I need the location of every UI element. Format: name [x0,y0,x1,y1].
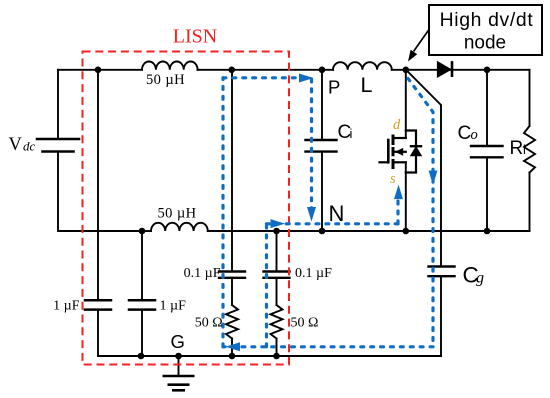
source Vdc plates [37,138,79,141]
capacitor Ci top lead [321,70,323,140]
capacitor Ci bottom lead [321,152,323,231]
node G junction [175,353,182,360]
wire N rail stub before inductor [142,230,151,232]
node: top rail / C1 [95,67,102,74]
Q1 gate lead [380,161,389,163]
wire high dv/dt node diagonal to Cg branch [406,70,441,267]
node: ground rail / 50ohm N-branch [273,353,280,360]
Q1 channel top bar [392,136,395,144]
svg-text:L: L [361,73,373,97]
capacitor 0.1uF P-branch plates [219,272,245,278]
svg-text:V: V [9,135,23,155]
MOSFET Q1 [380,70,422,231]
svg-text:0.1 µF: 0.1 µF [295,266,332,281]
capacitor C1 1uF bottom lead [97,310,99,356]
diode D1 [437,61,452,77]
node P junction [319,67,326,74]
capacitor Cg bottom lead [440,276,442,356]
Q1 source lead down to N rail [405,162,407,231]
ground symbol G [163,356,195,390]
Q1 drain lead [405,70,407,138]
arrowhead blue down (to N rail) [307,207,316,222]
Q1 body diode branch top [406,131,416,148]
resistor RL zigzag [524,126,535,173]
svg-text:C: C [458,123,472,144]
Q1 mid stub [393,151,406,153]
Q1 body diode triangle [411,147,421,155]
capacitor C1 1uF plates [85,300,111,309]
wire ground rail bottom [98,355,441,357]
svg-text:50 Ω: 50 Ω [291,316,319,331]
capacitor Co plates [471,146,503,157]
inductor 50uH top [142,62,198,70]
wire blue: up to Q1 source [396,194,399,224]
capacitor 0.1uF P-branch top lead [231,70,233,272]
svg-text:LISN: LISN [173,26,217,48]
wire Vdc top lead [57,70,59,139]
svg-text:1 µF: 1 µF [160,299,187,314]
svg-text:1 µF: 1 µF [53,299,80,314]
Q1 channel mid bar [392,149,395,155]
LISN boundary box (red dashed) [83,52,290,365]
wire blue: along N rail to source [267,222,399,225]
wire Vdc bottom lead to N return [58,152,142,232]
svg-text:i: i [350,126,353,141]
svg-text:o: o [471,127,478,143]
callout arrow [414,30,430,52]
svg-text:node: node [464,32,506,53]
Q1 drain stub [393,137,406,139]
wire top rail left (Vdc+ to LISN) [58,69,142,71]
arrowhead blue right (N rail) [271,219,286,228]
arrowhead blue down (Cg path) [429,171,438,186]
wire blue: bottom return [223,345,433,348]
node: top rail / 0.1uF P-branch [228,67,235,74]
resistor 50ohm P-branch lead and zigzag [226,278,238,356]
wire N rail (inductor to right edge) [208,230,530,232]
node: top rail / Co [484,67,491,74]
svg-text:d: d [393,117,401,133]
wire blue: up P-branch [221,78,224,347]
wire RL bottom to N rail [529,173,531,232]
inductor 50uH bottom [151,223,208,231]
Q1 gate bar [387,140,390,162]
svg-text:0.1 µF: 0.1 µF [184,266,221,281]
svg-text:s: s [390,171,396,187]
svg-text:l: l [523,142,526,157]
wire right edge down to RL [529,70,531,126]
capacitor C2 1uF top lead [141,231,143,300]
capacitor C1 1uF top lead [97,70,99,300]
node: N rail / 0.1uF N-branch [273,228,280,235]
svg-text:G: G [171,331,185,352]
svg-text:N: N [329,201,345,226]
arrowhead blue up (to source) [394,185,403,200]
capacitor Cg plates [429,267,455,277]
Q1 body diode branch bottom [406,156,416,173]
node: ground rail / C2 [138,353,145,360]
wire blue: down to N rail [310,79,313,211]
capacitor 0.1uF N-branch top lead [276,231,278,272]
svg-text:High dv/dt: High dv/dt [440,9,534,31]
wire top rail right (node to diode to Co and RL) [392,69,530,71]
svg-text:50 µH: 50 µH [158,206,197,222]
svg-text:P: P [328,77,340,98]
Q1 body arrow [395,148,403,156]
wire top rail middle (to node P) [198,69,333,71]
svg-text:50 µH: 50 µH [146,72,185,88]
capacitor Ci plates [306,140,337,152]
resistor 50ohm N-branch lead and zigzag [271,278,283,356]
arrowhead blue left (bottom return) [226,342,241,351]
node: high dv/dt node [403,67,410,74]
D1 cathode bar [451,61,454,77]
callout box: High dv/dt node [408,5,542,62]
capacitor C2 1uF plates [129,300,155,309]
svg-text:g: g [476,269,484,286]
node: N rail / Co [484,228,491,235]
Q1 body diode cathode bar [411,145,421,147]
wire blue: node diagonal down through Cg [408,79,433,348]
capacitor C2 1uF bottom lead [141,310,143,356]
capacitor Co top lead [486,70,488,146]
node: N rail / Ci [319,228,326,235]
node: N rail / C2 [139,228,146,235]
capacitor 0.1uF N-branch plates [264,272,290,278]
inductor L [333,62,392,70]
Q1 channel bottom bar [392,161,395,168]
svg-text:dc: dc [23,139,36,154]
arrowhead blue right (P rail) [299,74,314,83]
blue EMI current path [223,78,433,347]
node: ground rail / 50ohm P-branch [229,353,236,360]
wire blue: up N-branch [265,224,268,347]
capacitor Co bottom lead [486,157,488,231]
node: N rail / Q1 source [403,228,410,235]
wire blue: along P rail to right [223,76,303,79]
svg-text:50 Ω: 50 Ω [195,316,223,331]
Q1 source stub [393,161,406,163]
svg-text:R: R [510,138,524,159]
